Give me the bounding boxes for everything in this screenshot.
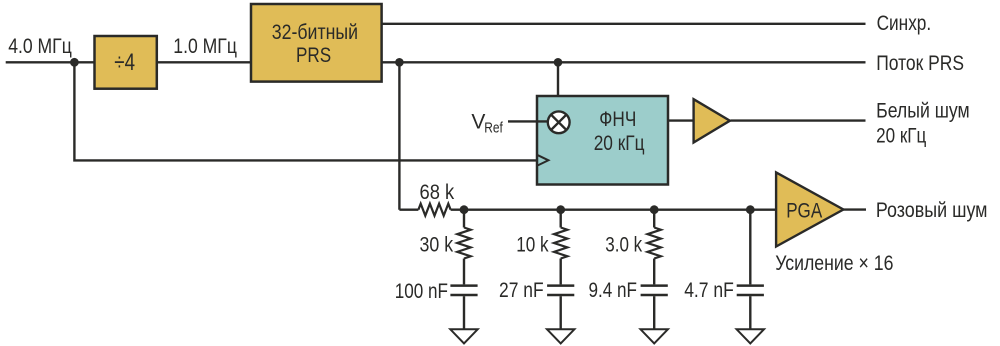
wire LPF to amplifier <box>668 119 693 121</box>
wire ladder horizontal <box>399 208 776 210</box>
wire node G down to C4 <box>749 210 751 285</box>
svg-text:4.0 МГц: 4.0 МГц <box>8 35 72 58</box>
wire node C down to mixer <box>557 62 559 111</box>
svg-text:9.4 nF: 9.4 nF <box>589 279 638 302</box>
resistor R1 68 k horizontal <box>418 204 450 216</box>
block 32-bit PRS <box>251 4 382 82</box>
node D dot <box>460 205 469 214</box>
svg-text:÷4: ÷4 <box>114 49 135 76</box>
node A junction dot <box>70 58 79 67</box>
capacitor C4 4.7 nF <box>737 286 764 330</box>
svg-text:1.0 МГц: 1.0 МГц <box>173 35 237 58</box>
node C dot on PRS stream <box>554 58 563 67</box>
amplifier A1 <box>694 99 730 142</box>
svg-text:68 k: 68 k <box>420 181 455 204</box>
ground 2 <box>547 329 574 343</box>
svg-text:3.0 k: 3.0 k <box>605 234 642 257</box>
ground 1 <box>450 329 477 343</box>
svg-text:10 k: 10 k <box>516 234 549 257</box>
svg-text:32-битный: 32-битный <box>272 21 358 44</box>
wire sync output <box>382 23 866 25</box>
LPF block ФНЧ 20 кГц <box>537 96 668 185</box>
svg-text:100 nF: 100 nF <box>395 280 448 303</box>
resistor R2 30 k <box>457 210 470 285</box>
capacitor C1 100 nF <box>450 286 477 330</box>
svg-text:PRS: PRS <box>296 44 331 67</box>
divider block ÷4 <box>95 36 157 89</box>
node G dot <box>746 205 755 214</box>
wire amplifier to white noise output <box>731 119 866 121</box>
capacitor C3 9.4 nF <box>641 286 668 330</box>
clock input chevron <box>538 155 549 165</box>
node F dot <box>650 205 659 214</box>
svg-text:30 k: 30 k <box>420 234 454 257</box>
svg-text:20 кГц: 20 кГц <box>876 125 926 148</box>
ground 4 <box>737 329 764 343</box>
svg-text:ФНЧ: ФНЧ <box>599 108 636 131</box>
ground 3 <box>641 329 668 343</box>
svg-text:PGA: PGA <box>786 199 822 222</box>
svg-text:Усиление × 16: Усиление × 16 <box>775 252 893 275</box>
wire PGA to pink noise output <box>843 208 866 210</box>
resistor R3 10 k <box>554 210 567 285</box>
node E dot <box>556 205 565 214</box>
node B dot on PRS stream <box>395 58 404 67</box>
wire PRS stream output <box>382 61 866 63</box>
svg-text:Синхр.: Синхр. <box>877 12 932 35</box>
wire ÷4 to PRS <box>157 61 251 63</box>
svg-text:4.7 nF: 4.7 nF <box>684 279 734 302</box>
svg-text:20 кГц: 20 кГц <box>594 132 645 155</box>
svg-text:Белый шум: Белый шум <box>876 99 970 122</box>
capacitor C2 27 nF <box>547 286 574 330</box>
svg-text:Ref: Ref <box>484 119 503 136</box>
mixer multiplier symbol <box>548 111 570 133</box>
wire node B down to resistor ladder <box>398 62 400 209</box>
wire from node A down and right to LPF clock input <box>74 62 537 160</box>
wire VRef to mixer <box>508 120 547 122</box>
svg-text:Поток PRS: Поток PRS <box>876 52 964 75</box>
resistor R4 3.0 k <box>648 210 661 285</box>
svg-text:Розовый шум: Розовый шум <box>876 199 988 222</box>
PGA amplifier <box>776 172 843 246</box>
wire input 4.0 MHz <box>6 61 95 63</box>
svg-text:27 nF: 27 nF <box>499 279 544 302</box>
